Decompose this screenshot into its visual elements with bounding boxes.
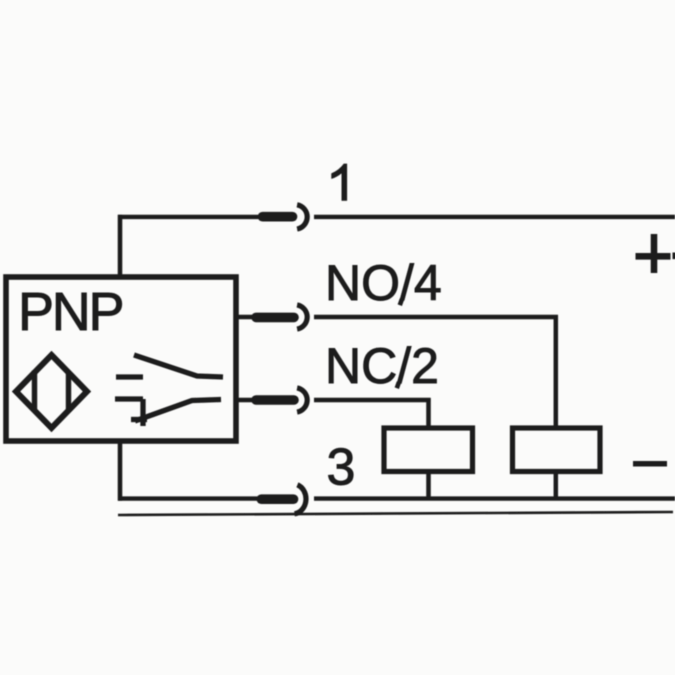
- supply + symbol vertical bar: [651, 234, 658, 273]
- wire pin1 vertical drop to sensor box: [118, 215, 123, 279]
- NC contact fixed terminal: [115, 396, 143, 401]
- NO contact fixed terminal: [116, 374, 143, 379]
- svg-text:PNP: PNP: [18, 282, 125, 342]
- wire pin3 vertical drop from sensor box: [118, 439, 123, 501]
- connector pin NC/2: [256, 395, 294, 405]
- connector socket arc pin 1: [297, 205, 307, 229]
- connector pin 3: [261, 494, 293, 504]
- connector socket arc pin 3: [295, 485, 306, 514]
- connector socket arc NC/2: [297, 388, 307, 412]
- pin number label 1: [332, 164, 347, 200]
- NC contact blade tail: [131, 417, 147, 422]
- wire NO/4 vertical drop to load RL2: [554, 315, 559, 429]
- wire pin1 to supply +: [314, 215, 675, 219]
- connector pin NO/4: [256, 313, 294, 323]
- sensor body outline: [6, 277, 236, 441]
- slash descender of NO/4: [400, 299, 402, 305]
- supply - symbol: [633, 461, 667, 467]
- wire NO/4 horizontal: [314, 315, 558, 319]
- NO contact blade: [134, 355, 223, 377]
- scan ghost line below pin3 wire: [118, 512, 673, 515]
- slash descender of NC/2: [397, 382, 399, 388]
- load RL1 box: [384, 428, 473, 472]
- load RL2 bottom lead: [554, 470, 559, 499]
- sensor symbol left chord: [32, 371, 37, 412]
- wire NC/2 vertical drop to load RL1: [426, 398, 431, 429]
- load RL1 bottom lead: [426, 470, 431, 499]
- wire pin1 horizontal left segment: [118, 215, 259, 219]
- connector socket arc NO/4: [297, 305, 307, 329]
- wire pin3 horizontal left segment: [118, 496, 259, 500]
- supply + symbol horizontal bar: [636, 253, 671, 260]
- wire NC/2 stub from sensor: [236, 398, 256, 402]
- partial second + at image edge: [673, 253, 675, 260]
- connector pin 1 (plug pin): [263, 212, 293, 222]
- wire NO/4 stub from sensor: [236, 315, 256, 319]
- sensor symbol right chord: [66, 372, 71, 413]
- NC contact blade: [135, 400, 221, 422]
- wire NC/2 horizontal: [314, 398, 431, 402]
- inductive sensor symbol diamond: [16, 355, 87, 428]
- wire pin3 to supply -: [314, 496, 675, 500]
- svg-text:3: 3: [327, 439, 356, 497]
- load RL2 box: [513, 428, 601, 472]
- svg-text:NC/2: NC/2: [325, 338, 439, 394]
- svg-text:NO/4: NO/4: [325, 255, 442, 311]
- NC contact stop bar: [140, 399, 145, 426]
